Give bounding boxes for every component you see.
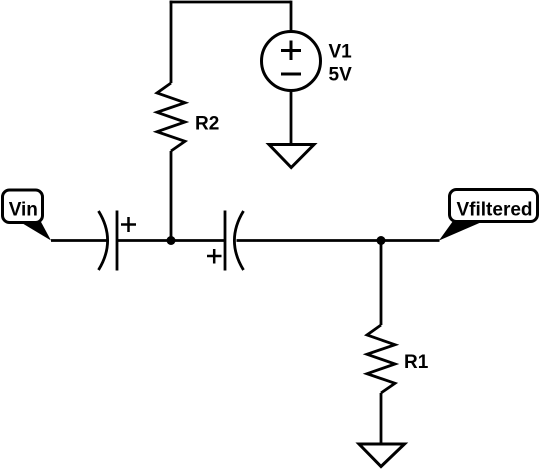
wire V1 bottom lead bbox=[290, 91, 293, 145]
voltage source V1 circle bbox=[262, 32, 321, 91]
capacitor C2 straight plate bbox=[224, 211, 227, 271]
svg-text:V1: V1 bbox=[329, 42, 353, 63]
net label Vin box bbox=[3, 190, 43, 223]
wire R2 bottom lead to node A bbox=[170, 151, 173, 241]
ground under V1 bbox=[269, 145, 314, 168]
svg-text:5V: 5V bbox=[329, 65, 353, 86]
resistor R2 zigzag bbox=[157, 83, 185, 151]
wire C2 to node B to Vfiltered bbox=[237, 239, 440, 242]
net label Vin pointer bbox=[19, 221, 52, 241]
svg-text:Vfiltered: Vfiltered bbox=[457, 200, 533, 221]
V1 plus sign bbox=[281, 41, 301, 61]
ground under R1 bbox=[359, 444, 405, 467]
capacitor C2 plus sign bbox=[207, 249, 222, 264]
capacitor C1 straight plate bbox=[116, 211, 119, 271]
node A junction dot bbox=[167, 236, 176, 245]
wire R2 top lead vertical bbox=[170, 1, 173, 83]
wire Vin to capacitor C1 bbox=[51, 239, 107, 242]
resistor R1 zigzag bbox=[367, 325, 395, 393]
node B junction dot bbox=[377, 236, 386, 245]
svg-text:Vin: Vin bbox=[9, 200, 38, 221]
net label Vfiltered pointer bbox=[439, 221, 484, 241]
svg-text:R1: R1 bbox=[404, 352, 429, 373]
svg-text:R2: R2 bbox=[195, 114, 219, 135]
wire top horizontal from R2 to V1 bbox=[170, 1, 291, 4]
capacitor C2 curved plate bbox=[234, 211, 243, 270]
V1 minus sign bbox=[281, 73, 301, 76]
wire node B down to R1 bbox=[380, 241, 383, 326]
capacitor C1 curved plate bbox=[99, 211, 108, 270]
wire C1 to node A to C2 bbox=[117, 239, 225, 242]
wire V1 top lead vertical bbox=[290, 1, 293, 32]
capacitor C1 plus sign bbox=[121, 217, 136, 232]
net label Vfiltered box bbox=[450, 190, 538, 222]
wire R1 bottom lead bbox=[380, 393, 383, 444]
